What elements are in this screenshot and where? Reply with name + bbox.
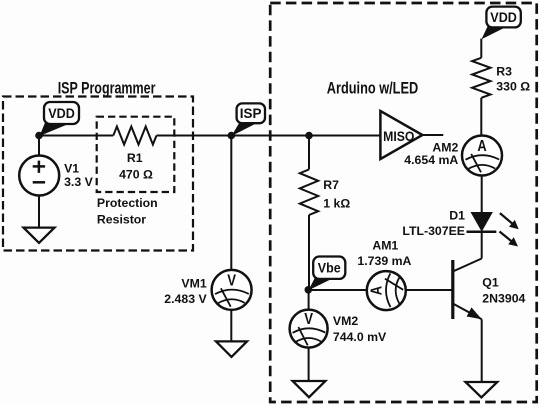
svg-text:2.483 V: 2.483 V bbox=[164, 292, 207, 306]
svg-text:A: A bbox=[369, 286, 386, 295]
svg-text:V: V bbox=[227, 273, 236, 290]
svg-text:1 kΩ: 1 kΩ bbox=[323, 196, 350, 210]
svg-text:744.0 mV: 744.0 mV bbox=[333, 330, 387, 344]
svg-text:LTL-307EE: LTL-307EE bbox=[402, 224, 465, 238]
svg-text:4.654 mA: 4.654 mA bbox=[404, 153, 458, 167]
svg-text:Q1: Q1 bbox=[482, 276, 499, 290]
svg-text:Protection: Protection bbox=[97, 196, 158, 210]
svg-text:V: V bbox=[304, 311, 313, 328]
svg-text:470 Ω: 470 Ω bbox=[119, 167, 153, 181]
svg-text:ISP Programmer: ISP Programmer bbox=[58, 79, 156, 97]
svg-text:AM1: AM1 bbox=[372, 239, 398, 253]
svg-text:2N3904: 2N3904 bbox=[482, 292, 525, 306]
svg-text:Resistor: Resistor bbox=[97, 212, 146, 226]
svg-text:A: A bbox=[477, 138, 486, 155]
svg-text:ISP: ISP bbox=[240, 105, 262, 121]
svg-text:VM1: VM1 bbox=[181, 277, 206, 291]
svg-text:330 Ω: 330 Ω bbox=[496, 80, 530, 94]
svg-text:VDD: VDD bbox=[48, 105, 75, 121]
svg-text:Arduino w/LED: Arduino w/LED bbox=[327, 80, 418, 98]
svg-text:D1: D1 bbox=[449, 209, 465, 223]
svg-text:Vbe: Vbe bbox=[318, 260, 341, 276]
svg-text:3.3 V: 3.3 V bbox=[64, 175, 94, 189]
svg-text:MISO: MISO bbox=[383, 128, 414, 144]
svg-text:V1: V1 bbox=[64, 161, 79, 175]
svg-text:1.739 mA: 1.739 mA bbox=[357, 254, 411, 268]
svg-text:VDD: VDD bbox=[490, 9, 517, 25]
svg-text:VM2: VM2 bbox=[333, 314, 358, 328]
svg-text:R3: R3 bbox=[496, 65, 512, 79]
svg-text:R1: R1 bbox=[127, 151, 143, 165]
svg-text:R7: R7 bbox=[323, 178, 339, 192]
